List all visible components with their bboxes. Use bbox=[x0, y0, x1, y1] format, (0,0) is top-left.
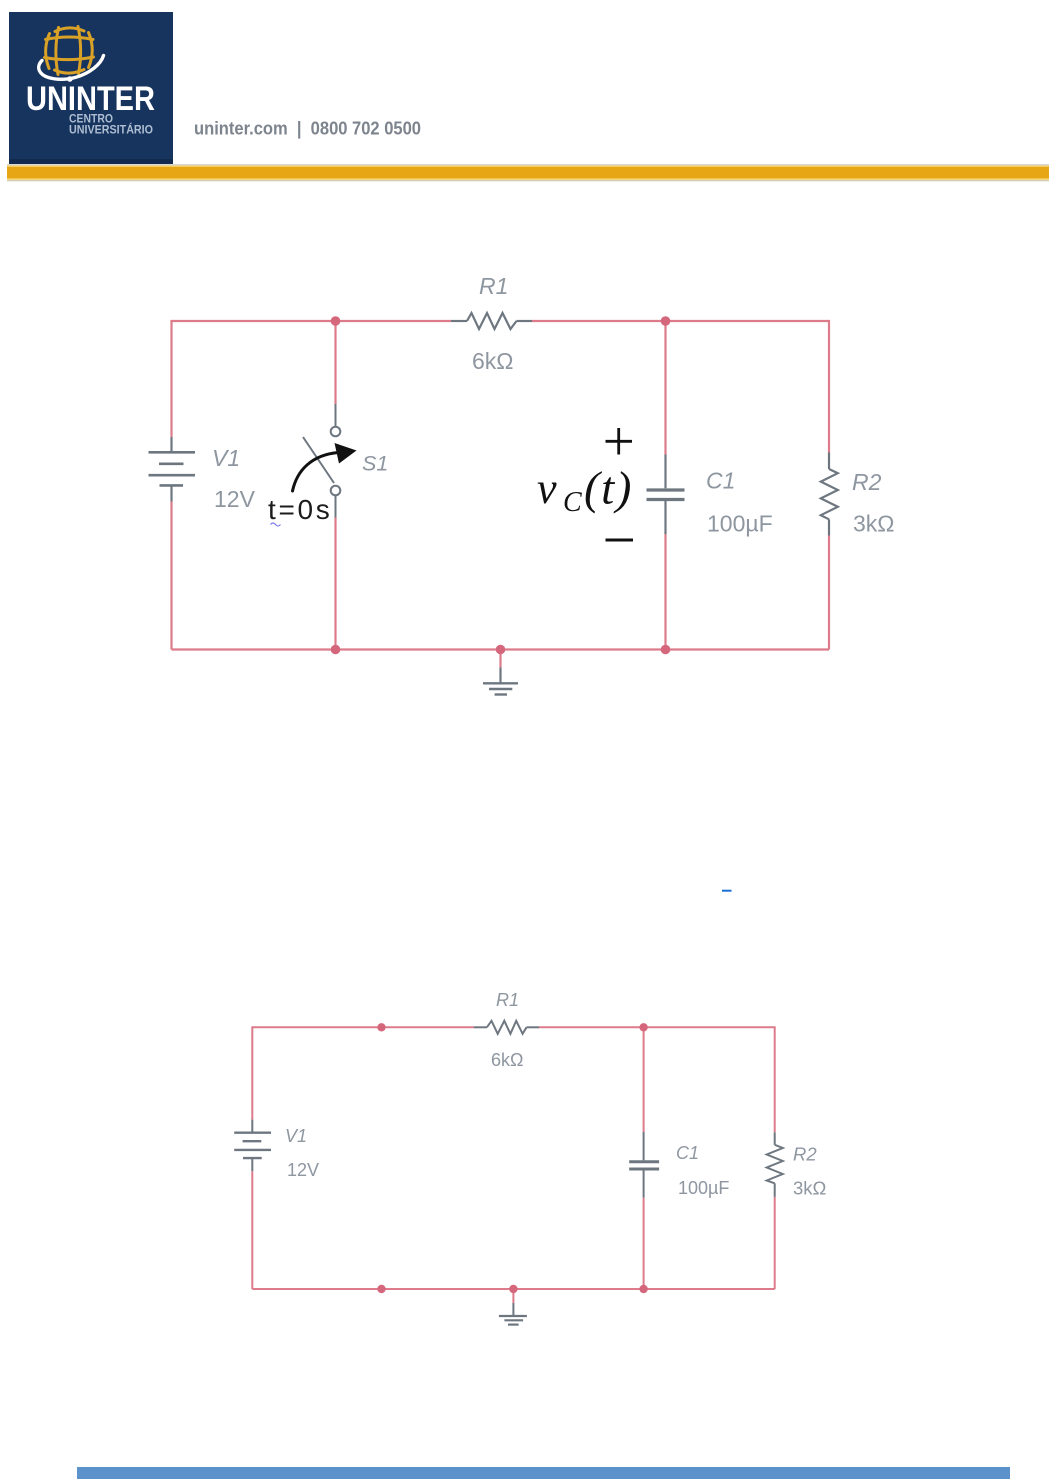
svg-text:12V: 12V bbox=[287, 1160, 319, 1180]
wire: right lower segment bbox=[828, 536, 830, 650]
logo subtitle CENTRO UNIVERSITARIO bbox=[69, 112, 153, 137]
wire 2: top right segment bbox=[539, 1027, 775, 1132]
svg-text:6kΩ: 6kΩ bbox=[491, 1050, 523, 1070]
node dot top switch branch bbox=[331, 316, 341, 326]
label R2 bbox=[852, 469, 882, 495]
wire 2: bottom rail bbox=[252, 1288, 774, 1290]
value 100uF bbox=[707, 511, 773, 537]
capacitor C1 (circuit 2) bbox=[629, 1132, 659, 1198]
value 6kOhm (circuit 2) bbox=[491, 1050, 523, 1070]
logo satellite dot bbox=[67, 76, 73, 82]
logo swoosh (white orbit) bbox=[39, 56, 104, 80]
wire: capacitor branch upper bbox=[664, 321, 666, 455]
value 100uF (circuit 2) bbox=[678, 1178, 729, 1198]
svg-text:V1: V1 bbox=[212, 445, 240, 471]
node dot 2 top left junction bbox=[377, 1023, 385, 1031]
wire 2: capacitor branch upper bbox=[643, 1027, 645, 1132]
value 6kOhm bbox=[472, 348, 514, 374]
svg-text:R2: R2 bbox=[793, 1144, 817, 1165]
node dot bottom capacitor branch bbox=[661, 645, 671, 655]
minus sign bbox=[606, 539, 634, 542]
yellow banner bar bbox=[7, 164, 1049, 181]
node dot 2 top capacitor branch bbox=[639, 1023, 647, 1031]
svg-text:S1: S1 bbox=[362, 452, 388, 476]
node dot 2 bottom capacitor branch bbox=[639, 1285, 647, 1293]
wire: ground stub bbox=[499, 650, 501, 668]
value 3kOhm bbox=[853, 511, 895, 537]
node dot 2 bottom ground bbox=[509, 1285, 517, 1293]
label V1 bbox=[212, 445, 240, 471]
label C1 bbox=[706, 468, 735, 494]
svg-text:3kΩ: 3kΩ bbox=[793, 1178, 827, 1199]
switch S1 bbox=[303, 404, 340, 518]
svg-text:100µF: 100µF bbox=[707, 511, 773, 537]
label S1 bbox=[362, 452, 388, 476]
node dot bottom ground bbox=[496, 645, 506, 655]
value 12V bbox=[214, 486, 256, 512]
wire: bottom rail bbox=[172, 648, 830, 650]
node dot bottom switch branch bbox=[331, 645, 341, 655]
node dot 2 bottom left junction bbox=[377, 1285, 385, 1293]
svg-text:t=0s: t=0s bbox=[268, 494, 333, 525]
svg-text:C: C bbox=[563, 487, 582, 518]
label t=0s bbox=[268, 494, 333, 525]
UNINTER logo navy box bbox=[9, 12, 173, 164]
svg-text:v: v bbox=[537, 464, 557, 513]
svg-text:12V: 12V bbox=[214, 486, 256, 512]
stray blue dash bbox=[722, 890, 732, 892]
resistor R1 bbox=[451, 313, 532, 329]
spellcheck squiggle under t bbox=[271, 523, 281, 526]
svg-text:3kΩ: 3kΩ bbox=[853, 511, 895, 537]
ground symbol (circuit 2) bbox=[499, 1303, 527, 1325]
svg-text:V1: V1 bbox=[285, 1126, 307, 1146]
resistor R1 (circuit 2) bbox=[474, 1021, 539, 1034]
wire 2: left lower segment bbox=[251, 1171, 253, 1289]
wire: left lower segment bbox=[170, 502, 172, 650]
battery V1 (circuit 2) bbox=[234, 1120, 271, 1172]
wire: switch branch lower bbox=[334, 518, 336, 650]
svg-text:R1: R1 bbox=[479, 273, 508, 299]
logo wordmark UNINTER bbox=[26, 80, 155, 118]
wire: capacitor branch lower bbox=[664, 534, 666, 650]
svg-text:uninter.com | 0800 702 0500: uninter.com | 0800 702 0500 bbox=[194, 119, 421, 139]
node dot top capacitor branch bbox=[661, 316, 671, 326]
svg-text:6kΩ: 6kΩ bbox=[472, 348, 514, 374]
svg-text:100µF: 100µF bbox=[678, 1178, 729, 1198]
svg-text:C1: C1 bbox=[706, 468, 735, 494]
bottom page bar bbox=[77, 1467, 1010, 1479]
battery V1 bbox=[149, 437, 196, 502]
label R2 (circuit 2) bbox=[793, 1144, 817, 1165]
label C1 (circuit 2) bbox=[676, 1143, 699, 1163]
value 12V (circuit 2) bbox=[287, 1160, 319, 1180]
label R1 bbox=[479, 273, 508, 299]
resistor R2 (circuit 2) bbox=[767, 1132, 783, 1197]
wire 2: capacitor branch lower bbox=[643, 1198, 645, 1289]
switch actuation arrow bbox=[293, 443, 357, 491]
logo globe (gold wireframe) bbox=[45, 27, 94, 75]
capacitor C1 bbox=[647, 455, 685, 535]
label R1 (circuit 2) bbox=[496, 990, 519, 1010]
wire: top left segment (V1 node to R1) bbox=[172, 321, 452, 437]
plus sign bbox=[606, 428, 633, 455]
svg-text:UNIVERSITÁRIO: UNIVERSITÁRIO bbox=[69, 122, 153, 137]
header contact text bbox=[194, 119, 421, 139]
wire 2: right lower segment bbox=[774, 1197, 776, 1289]
node label vC(t) bbox=[537, 463, 633, 519]
resistor R2 bbox=[821, 453, 838, 536]
svg-text:R1: R1 bbox=[496, 990, 519, 1010]
svg-text:C1: C1 bbox=[676, 1143, 699, 1163]
wire: top right segment (R1 to right corner) bbox=[532, 321, 829, 453]
ground symbol bbox=[483, 668, 518, 695]
wire: switch branch upper bbox=[334, 321, 336, 404]
wire 2: top left segment bbox=[252, 1027, 473, 1119]
svg-text:R2: R2 bbox=[852, 469, 882, 495]
svg-text:(t): (t) bbox=[584, 463, 633, 515]
wire 2: ground stub bbox=[512, 1289, 514, 1303]
value 3kOhm (circuit 2) bbox=[793, 1178, 827, 1199]
label V1 (circuit 2) bbox=[285, 1126, 307, 1146]
